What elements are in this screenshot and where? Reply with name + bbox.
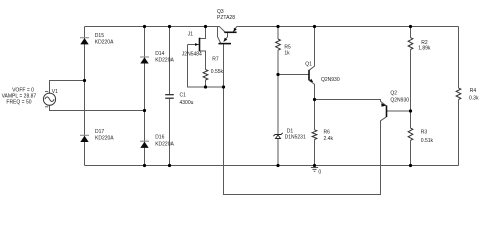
svg-text:2.4k: 2.4k <box>324 136 334 142</box>
svg-text:VAMPL = 28.87: VAMPL = 28.87 <box>2 93 37 99</box>
svg-text:D17: D17 <box>95 129 104 135</box>
svg-text:KD220A: KD220A <box>155 141 174 147</box>
svg-text:PZTA28: PZTA28 <box>217 15 235 21</box>
svg-text:C1: C1 <box>180 93 187 99</box>
svg-text:0.3k: 0.3k <box>469 96 479 102</box>
svg-text:J2N5484: J2N5484 <box>182 51 202 57</box>
svg-text:4300u: 4300u <box>180 100 194 106</box>
svg-text:KD220A: KD220A <box>95 136 114 142</box>
svg-text:R3: R3 <box>421 130 428 136</box>
svg-text:FREQ = 50: FREQ = 50 <box>6 100 31 106</box>
svg-text:D14: D14 <box>155 51 164 57</box>
svg-text:R7: R7 <box>212 56 219 62</box>
svg-text:Q1: Q1 <box>305 61 312 67</box>
svg-text:0.51k: 0.51k <box>421 138 434 144</box>
svg-text:KD220A: KD220A <box>95 40 114 46</box>
svg-text:D15: D15 <box>95 33 104 39</box>
svg-text:R4: R4 <box>470 88 477 94</box>
svg-text:R6: R6 <box>324 130 331 136</box>
svg-text:KD220A: KD220A <box>155 58 174 64</box>
svg-text:0: 0 <box>318 169 321 175</box>
svg-text:1k: 1k <box>284 50 290 56</box>
svg-text:Q2N930: Q2N930 <box>321 77 340 83</box>
svg-text:D16: D16 <box>155 135 164 141</box>
svg-text:J1: J1 <box>188 32 194 38</box>
svg-text:V1: V1 <box>52 89 58 95</box>
svg-text:D1N5231: D1N5231 <box>285 135 306 141</box>
svg-text:Q2N930: Q2N930 <box>390 97 409 103</box>
svg-text:0.55k: 0.55k <box>211 69 224 75</box>
svg-text:1.89k: 1.89k <box>418 45 431 51</box>
svg-text:Q2: Q2 <box>390 90 397 96</box>
